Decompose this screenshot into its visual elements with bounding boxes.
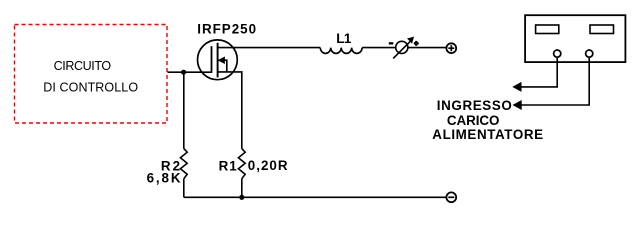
node junction R1/bottom rail <box>239 195 244 200</box>
svg-text:IRFP250: IRFP250 <box>197 22 257 37</box>
wire bottom rail <box>184 196 447 198</box>
wire inductor to plus terminal <box>362 47 447 49</box>
resistor R2 zigzag <box>180 149 187 179</box>
svg-text:DI CONTROLLO: DI CONTROLLO <box>43 81 138 95</box>
transistor Q1 gate bar <box>211 46 213 73</box>
transistor Q1 arrow tail <box>224 60 227 72</box>
svg-text:ALIMENTATORE: ALIMENTATORE <box>432 127 543 142</box>
svg-text:L1: L1 <box>336 31 352 46</box>
wire left hole to arrow <box>521 57 557 87</box>
wire R1 bottom lead <box>241 179 243 198</box>
transistor Q1 body circle <box>198 40 238 80</box>
transistor Q1 arrowhead <box>218 57 224 63</box>
meter M1 body <box>396 41 408 53</box>
arrowhead left hole <box>513 82 521 91</box>
wire right hole to arrow <box>521 57 589 105</box>
svg-text:CARICO: CARICO <box>447 113 499 128</box>
terminal minus <box>446 192 456 202</box>
wire R2 top lead <box>183 72 185 148</box>
svg-text:6,8K: 6,8K <box>147 170 183 185</box>
wire R2 bottom lead <box>183 179 185 198</box>
svg-text:R1: R1 <box>219 158 238 173</box>
resistor R1 zigzag <box>238 149 245 179</box>
wire drain to inductor <box>218 47 321 49</box>
meter M1 needle arrowhead <box>408 37 414 43</box>
terminal plus <box>446 43 456 53</box>
wire gate from control box <box>168 71 212 73</box>
transistor Q1 channel bar <box>217 43 219 78</box>
socket outline <box>525 15 625 62</box>
node junction gate/R2 <box>181 70 186 75</box>
svg-text:CIRCUITO: CIRCUITO <box>54 59 112 73</box>
control box dashed outline <box>15 25 168 124</box>
inductor L1 <box>320 48 362 54</box>
meter plus sign <box>414 42 419 44</box>
socket right slot <box>590 25 614 34</box>
socket left slot <box>536 25 559 34</box>
wire source to R1 <box>218 72 242 149</box>
arrowhead right hole <box>513 101 521 110</box>
svg-text:0,20R: 0,20R <box>248 158 289 173</box>
svg-text:INGRESSO: INGRESSO <box>437 98 513 113</box>
socket right hole <box>586 50 593 57</box>
meter minus sign <box>389 42 394 44</box>
socket left hole <box>554 50 561 57</box>
meter M1 needle <box>393 40 411 58</box>
